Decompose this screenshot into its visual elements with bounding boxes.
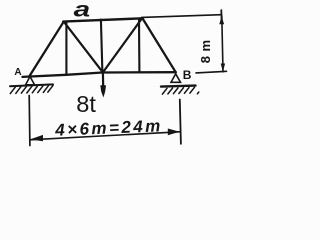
span dimension right extension line (180, 100, 181, 144)
8m top arrow (219, 16, 224, 24)
span right arrow (168, 129, 180, 136)
end diagonal T3-B (143, 19, 176, 72)
vertical T1-B1 (65, 22, 67, 75)
support A hatching (10, 85, 53, 93)
top extension line to 8m dimension (142, 15, 222, 18)
svg-text:A: A (14, 67, 21, 78)
load arrow shaft at B2 (102, 73, 104, 88)
span dimension line (30, 132, 180, 140)
svg-text:a: a (74, 0, 90, 21)
support A ground line (10, 84, 53, 86)
support A pin triangle (26, 77, 35, 85)
support B roller triangle (171, 74, 181, 83)
end diagonal A-T1 (29, 22, 63, 77)
diagonal T1-B2 (64, 22, 103, 72)
support B ground line (161, 86, 196, 87)
vertical T2-B2 (101, 20, 103, 73)
svg-text:B: B (183, 68, 192, 82)
svg-text:4×6m=24m: 4×6m=24m (54, 116, 163, 140)
span dimension left extension line (28, 96, 31, 146)
svg-text:8t: 8t (76, 91, 96, 117)
svg-text:8m: 8m (198, 35, 213, 63)
diagonal T3-B2 (103, 19, 142, 73)
vertical T3-B3 (138, 19, 140, 72)
span left arrow (30, 135, 43, 141)
load arrow head (100, 85, 106, 97)
support B hatching (162, 87, 198, 94)
bottom extension line from B to 8m dimension (196, 71, 227, 73)
top chord T1-T2-T3 (63, 18, 142, 21)
8m vertical dimension line (222, 16, 223, 72)
8m bottom arrow (221, 64, 225, 72)
bottom chord A-B1-B2-B3-B (23, 72, 176, 77)
8m dimension line overshoot tick (220, 10, 222, 20)
